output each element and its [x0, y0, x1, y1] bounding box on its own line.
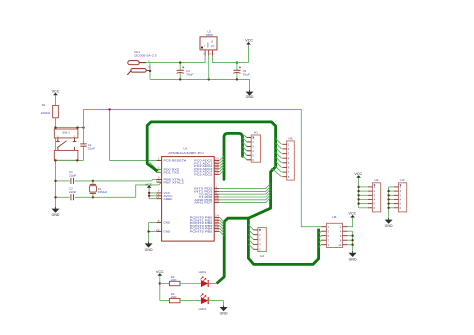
pin 27 PC4 ADC4	[194, 168, 219, 174]
svg-text:LED1: LED1	[199, 270, 207, 274]
wire bottom GND rail	[150, 79, 250, 90]
svg-text:GND: GND	[385, 224, 394, 228]
connector H3	[394, 178, 407, 212]
wire LED2 to ground	[223, 301, 225, 307]
junction switch pin4 row	[76, 159, 78, 161]
svg-text:GND: GND	[164, 230, 172, 234]
junction mcu AVCC pin	[148, 195, 150, 197]
svg-text:PC6 RESET#: PC6 RESET#	[164, 158, 187, 162]
svg-text:H3: H3	[401, 178, 405, 182]
wire ADC bus branches	[219, 156, 224, 174]
svg-text:H5: H5	[289, 136, 293, 140]
svg-text:75uF: 75uF	[243, 72, 251, 76]
junction led row1	[159, 282, 161, 284]
pin 11 T1 PD5	[199, 193, 220, 199]
power VCC H2	[354, 172, 368, 208]
svg-text:GND: GND	[145, 248, 154, 252]
svg-text:PC5 ADC5: PC5 ADC5	[194, 172, 212, 176]
wire H4 branches	[248, 225, 254, 250]
svg-text:LED2: LED2	[199, 307, 207, 311]
ground GND H3	[385, 218, 394, 228]
pin 9 PB6 XTAL1	[157, 176, 185, 182]
ic U1 ATMEGA328P-PU	[162, 146, 215, 241]
svg-text:100kΩ: 100kΩ	[41, 111, 51, 115]
wire DC jack to rails	[149, 63, 151, 80]
connector DC1 power jack	[127, 50, 157, 75]
wire INT bus branches	[219, 184, 270, 203]
junction C3 top row	[82, 126, 84, 128]
wire H6 branches	[319, 231, 322, 247]
wire switch bottom row	[56, 159, 84, 161]
junction jack	[149, 70, 151, 72]
wire mcu GND pins	[149, 223, 157, 244]
junction H3 feed	[387, 190, 389, 192]
wire H1 branches	[243, 134, 252, 160]
svg-text:VI: VI	[211, 40, 214, 43]
junction mcu VCC pin	[148, 192, 150, 194]
connector H4	[254, 228, 267, 259]
junction H6 pin4	[351, 235, 353, 237]
junction H2 feed	[357, 194, 359, 196]
pin 1 PC6 RESET#	[157, 157, 187, 163]
svg-text:GND: GND	[220, 312, 229, 316]
pin 17 PCINT3 PB3	[190, 222, 220, 228]
junction H2 feed	[357, 198, 359, 200]
svg-text:VO: VO	[211, 45, 215, 48]
wire VIN top rail	[146, 62, 205, 64]
junction reset row left	[54, 159, 56, 161]
svg-text:PD1 TXD: PD1 TXD	[164, 170, 181, 174]
junction crystal top	[92, 180, 94, 182]
svg-text:H4: H4	[260, 254, 264, 258]
capacitor C5	[233, 63, 250, 80]
junction XTAL1 left rail	[54, 180, 56, 182]
junction mcu GND pin22	[147, 230, 149, 232]
power VCC mcu	[145, 183, 156, 199]
connector H5	[282, 136, 294, 180]
junction regulator GND pin	[208, 78, 210, 80]
capacitor C1	[69, 170, 77, 184]
pin 20 AVCC	[156, 192, 174, 198]
svg-text:H1: H1	[254, 130, 258, 134]
pin 19 PCINT5 PB5	[190, 228, 220, 234]
pin 8 GND	[157, 219, 171, 225]
junction H3 feed	[387, 202, 389, 204]
svg-text:VCC: VCC	[349, 212, 358, 216]
svg-text:VCC: VCC	[354, 172, 363, 176]
svg-text:AIN1 PD7: AIN1 PD7	[194, 201, 212, 205]
svg-text:7805: 7805	[206, 33, 214, 37]
svg-text:22pF: 22pF	[69, 174, 77, 178]
capacitor C2	[69, 187, 77, 201]
wire VCC feed to H6 pin1	[301, 109, 321, 226]
wire regulator ground pin	[208, 56, 210, 80]
pin 15 PCINT1 PB1	[190, 217, 220, 223]
svg-text:R1: R1	[42, 103, 46, 107]
svg-text:ATMEGA328P-PU: ATMEGA328P-PU	[168, 151, 203, 155]
wire H5 branches	[271, 138, 282, 176]
bus ADC to H1	[224, 133, 243, 179]
wire XTAL1 row	[56, 179, 162, 181]
pin 21 AREF	[156, 195, 173, 201]
wire reset net row	[110, 109, 162, 160]
switch SW1	[54, 129, 78, 160]
junction R1 bottom	[54, 126, 56, 128]
ground GND leds	[220, 306, 229, 316]
power VCC leds	[156, 270, 165, 301]
junction interconnect	[108, 108, 110, 110]
junction H6 pin6	[351, 239, 353, 241]
junction H3 feed	[387, 207, 389, 209]
svg-text:PCINT5 PB5: PCINT5 PB5	[190, 229, 213, 233]
svg-text:GND: GND	[208, 42, 210, 47]
svg-text:H6: H6	[332, 215, 336, 219]
bus main loop	[147, 122, 275, 284]
power VCC regulator output	[245, 39, 254, 63]
svg-text:U1: U1	[183, 146, 187, 150]
connector H6	[321, 215, 348, 247]
wire regulator output pin	[212, 56, 248, 63]
pin 14 PCINT0 PB0	[190, 214, 220, 220]
pin 16 PCINT2 PB2	[190, 219, 220, 225]
junction H3 feed	[387, 194, 389, 196]
voltage regulator U2 7805	[200, 30, 217, 56]
capacitor C4	[177, 63, 194, 80]
pin 6 T0 PD4	[199, 191, 219, 197]
pin 18 PCINT4 PB4	[190, 225, 220, 231]
svg-text:75uF: 75uF	[186, 72, 194, 76]
pin 2 PD0 RXD	[157, 166, 181, 172]
svg-text:16MHz: 16MHz	[98, 190, 108, 194]
resistor R2	[160, 275, 180, 285]
junction C4 top	[179, 61, 181, 63]
wire XTAL2 row	[56, 182, 162, 197]
junction H2 feed	[357, 190, 359, 192]
ground GND mcu	[145, 242, 154, 252]
junction H3 feed	[387, 198, 389, 200]
junction C5 bottom	[236, 78, 238, 80]
pin 23 PC0 ADC0	[194, 157, 219, 163]
junction H2 feed	[357, 202, 359, 204]
ground GND power section	[246, 90, 255, 99]
led LED1	[180, 270, 217, 287]
ground GND left rail	[52, 207, 61, 217]
capacitor C3	[80, 128, 95, 161]
svg-text:GND: GND	[246, 95, 255, 99]
junction C4 bottom	[179, 78, 181, 80]
svg-text:SW 1: SW 1	[62, 130, 70, 134]
pin 5 INT1 PD3	[194, 188, 219, 194]
bus branch to H4 and H6	[248, 218, 318, 264]
wire PB bus branches	[219, 217, 224, 236]
svg-text:VCC: VCC	[156, 270, 165, 274]
ground GND H6	[349, 251, 358, 261]
power VCC reset pullup	[52, 89, 61, 105]
pin 10 PB7 XTAL2	[156, 179, 184, 185]
wire RXD TXD to bus	[150, 162, 162, 172]
resistor R3	[160, 292, 180, 303]
svg-text:GND: GND	[349, 257, 358, 261]
crystal K1 16MHz	[89, 181, 107, 197]
junction H2 feed	[357, 186, 359, 188]
svg-text:DC005-5A-2.5: DC005-5A-2.5	[135, 54, 158, 58]
junction C5 top	[236, 61, 238, 63]
pin 13 AIN1 PD7	[194, 199, 219, 205]
pin 4 INT0 PD2	[194, 185, 219, 191]
junction crystal bottom	[92, 196, 94, 198]
junction XTAL2 left rail	[54, 196, 56, 198]
pin 28 PC5 ADC5	[194, 171, 219, 177]
junction H6 pin8	[351, 244, 353, 246]
svg-text:AREF: AREF	[164, 197, 173, 201]
svg-text:VCC: VCC	[245, 39, 254, 43]
led LED2	[180, 294, 224, 311]
svg-text:PB7 XTAL2: PB7 XTAL2	[164, 180, 185, 184]
svg-text:22nF: 22nF	[88, 147, 96, 151]
pin 24 PC1 ADC1	[194, 160, 219, 166]
svg-text:VCC: VCC	[52, 89, 61, 93]
svg-text:GND: GND	[52, 213, 61, 217]
power VCC H6	[348, 212, 357, 227]
wire H3 ground pins	[389, 187, 394, 220]
resistor R1	[41, 103, 59, 118]
pin 25 PC2 ADC2	[194, 162, 219, 168]
wire H6 ground pins	[348, 231, 353, 253]
connector H2	[368, 178, 381, 212]
wire left GND rail	[55, 118, 57, 209]
wire reset row to switch	[56, 127, 84, 129]
junction switch pin2 top	[76, 126, 78, 128]
svg-text:H2: H2	[375, 178, 379, 182]
wire top interconnect row	[84, 109, 302, 127]
svg-text:GND: GND	[164, 221, 172, 225]
pin 7 VCC	[157, 189, 172, 195]
pin 26 PC3 ADC3	[194, 165, 219, 171]
svg-text:22pF: 22pF	[69, 190, 77, 194]
pin 22 GND	[156, 228, 171, 234]
wire regulator input pin	[204, 56, 206, 63]
connector H1	[247, 130, 261, 162]
pin 12 AIN0 PD6	[194, 196, 219, 202]
pin 3 PD1 TXD	[157, 169, 181, 175]
